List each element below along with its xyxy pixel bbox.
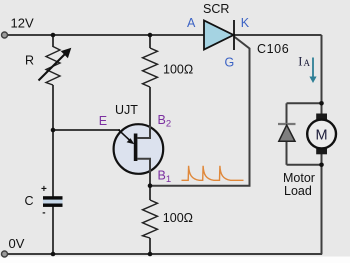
wire left rail <box>52 35 54 254</box>
label plus <box>41 184 47 195</box>
label G <box>225 56 235 70</box>
svg-text:UJT: UJT <box>115 103 138 117</box>
svg-text:A: A <box>304 58 311 68</box>
svg-text:I: I <box>298 54 302 68</box>
wire right rail (cathode to motor, motor to bottom) <box>321 35 323 254</box>
label C106 <box>257 42 289 56</box>
label E <box>99 114 107 128</box>
label UJT <box>115 103 138 117</box>
wire bottom rail 0V <box>4 253 322 255</box>
wire diode bottom <box>287 164 322 166</box>
junction node motor bottom <box>319 163 324 168</box>
svg-text:100Ω: 100Ω <box>163 63 193 77</box>
junction node bottom-left <box>51 252 56 257</box>
svg-text:C: C <box>25 194 34 208</box>
label A <box>187 16 196 30</box>
junction node bottom-mid <box>148 252 153 257</box>
junction node emitter <box>51 128 56 133</box>
label 12V <box>11 16 34 31</box>
label B2 <box>158 113 172 130</box>
svg-text:+: + <box>41 184 47 195</box>
SCR C106 <box>204 20 234 50</box>
label Motor Load <box>283 171 315 198</box>
svg-text:R: R <box>25 54 34 68</box>
svg-text:G: G <box>225 56 235 70</box>
wire gate to B1 node <box>150 37 250 186</box>
svg-text:K: K <box>241 16 250 30</box>
svg-text:A: A <box>187 16 196 30</box>
svg-text:-: - <box>42 207 45 218</box>
motor M <box>307 114 336 155</box>
svg-text:C106: C106 <box>257 42 289 56</box>
svg-text:Motor: Motor <box>283 171 315 185</box>
arrow IA current <box>309 58 316 84</box>
junction node top-left <box>51 33 56 38</box>
label C <box>25 194 34 208</box>
junction node B1 <box>148 183 153 188</box>
svg-text:E: E <box>99 114 107 128</box>
gate pulse waveform <box>182 166 244 181</box>
resistor 100 ohm lower <box>143 200 158 238</box>
resistor R (variable) <box>39 47 72 86</box>
label K <box>241 16 250 30</box>
label 0V <box>9 236 25 251</box>
svg-text:12V: 12V <box>11 16 34 31</box>
wire emitter horizontal <box>53 129 120 131</box>
wire diode top <box>287 102 322 104</box>
label R <box>25 54 34 68</box>
wire top rail 12V <box>4 34 322 36</box>
label 100 ohm lower <box>163 211 193 225</box>
junction node top-mid <box>148 33 153 38</box>
label SCR <box>203 2 229 16</box>
terminal 12V <box>2 32 8 38</box>
diode freewheel <box>278 103 296 165</box>
label IA <box>298 54 310 68</box>
UJT transistor <box>114 124 164 174</box>
svg-text:Load: Load <box>284 184 312 198</box>
label 100 ohm upper <box>163 63 193 77</box>
resistor 100 ohm upper <box>143 48 158 87</box>
svg-text:0V: 0V <box>9 236 25 251</box>
label minus <box>42 207 45 218</box>
svg-text:M: M <box>315 127 327 143</box>
junction node motor top <box>319 101 324 106</box>
terminal 0V <box>2 251 8 257</box>
label B1 <box>158 169 172 186</box>
svg-text:SCR: SCR <box>203 2 229 16</box>
svg-text:100Ω: 100Ω <box>163 211 193 225</box>
wire B1 to junction to lower 100R to bottom rail <box>149 172 151 254</box>
capacitor C <box>43 196 63 207</box>
wire middle rail (junction to 100R to UJT B2) <box>149 35 151 126</box>
